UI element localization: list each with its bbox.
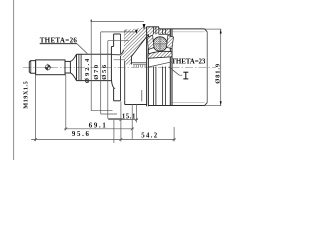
shaft clamp groove (79, 54, 81, 80)
cup outer profile (147, 27, 222, 106)
dim phi92.4 staple (91, 20, 144, 111)
dim phi70 staple (101, 32, 137, 114)
extension lines bottom dims (36, 75, 175, 143)
target mark on spline block (44, 64, 51, 71)
svg-text:Ø81.9: Ø81.9 (215, 63, 222, 84)
frame line left (13, 0, 15, 160)
cup rim (147, 27, 149, 107)
leader THETA=23 (149, 62, 173, 67)
boot seat hidden line (114, 59, 125, 61)
race side walls (148, 48, 172, 54)
cage left (147, 35, 154, 50)
svg-text:15.1: 15.1 (122, 113, 136, 120)
mouth wall section hatch (112, 27, 159, 65)
svg-text:54.2: 54.2 (141, 133, 158, 140)
spline block (36, 60, 65, 75)
centerline (23, 67, 216, 69)
dim line 95.6 / 54.2 (31, 138, 175, 141)
leader datum I (169, 67, 183, 75)
inner race spline teeth (133, 65, 146, 68)
cup clamp grooves (154, 27, 166, 106)
dim line 15.1 (108, 118, 138, 121)
cage right (167, 36, 174, 49)
dim phi81.9 (220, 29, 222, 105)
connecting shaft (77, 54, 112, 80)
top wall band to break line (159, 29, 171, 34)
dim phi56 staple (108, 41, 129, 119)
datum I (183, 72, 188, 79)
neck (65, 61, 70, 73)
taper to shaft (70, 54, 76, 80)
leader THETA=26 (77, 44, 87, 54)
svg-text:95.6: 95.6 (72, 131, 90, 138)
bell front face (111, 34, 120, 101)
svg-text:M19X1.5: M19X1.5 (23, 81, 30, 109)
svg-text:Ø56: Ø56 (101, 64, 108, 80)
svg-text:THETA=23: THETA=23 (171, 57, 206, 65)
thread stub M19x1.5 (29, 61, 35, 74)
boot groove lines (121, 34, 125, 101)
section break double line (170, 29, 172, 106)
inner race (148, 51, 172, 58)
bottom rim step line (141, 90, 143, 101)
bell body outer edges (125, 30, 147, 104)
svg-text:Ø70: Ø70 (93, 64, 100, 80)
dim line 69.1 (64, 127, 133, 130)
svg-text:Ø92.4: Ø92.4 (84, 58, 91, 83)
ball (152, 36, 168, 52)
